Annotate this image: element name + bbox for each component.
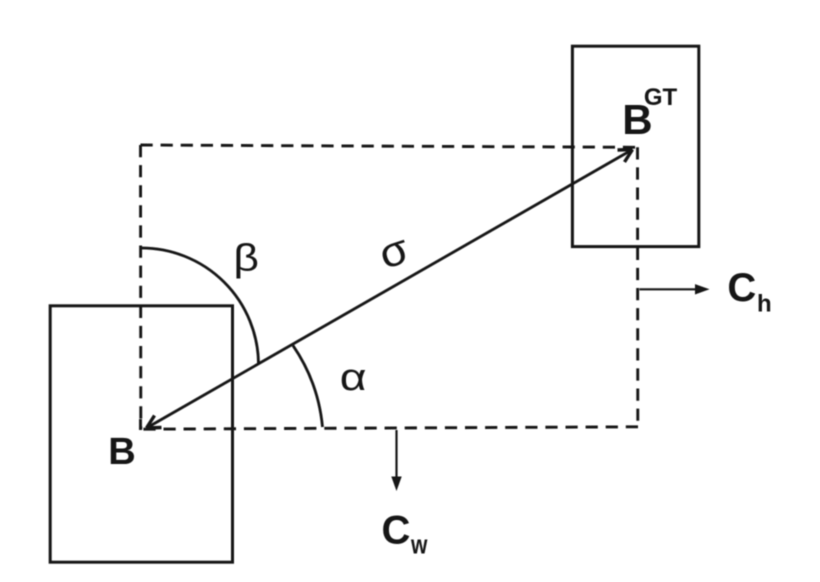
enclosing dashed box: bottom edge	[141, 427, 638, 429]
svg-text:h: h	[757, 291, 772, 318]
box B (predicted box, solid rectangle bottom-left)	[50, 306, 232, 562]
svg-text:B: B	[108, 431, 135, 473]
enclosing dashed box: left edge	[139, 145, 142, 429]
arrowhead upper-right of diagonal	[618, 150, 633, 163]
box BGT (ground-truth box, solid rectangle top-right)	[572, 46, 698, 246]
wire: left-edge dash stub at bottom-left corner	[139, 419, 142, 430]
svg-text:β: β	[233, 237, 259, 279]
beta angle arc	[142, 248, 259, 364]
enclosing dashed box: right edge	[636, 147, 639, 428]
svg-text:C: C	[727, 266, 756, 310]
svg-text:C: C	[382, 508, 411, 552]
svg-text:w: w	[410, 530, 427, 560]
sigma diagonal line	[147, 150, 633, 429]
svg-text:GT: GT	[644, 84, 678, 111]
alpha angle arc	[293, 346, 323, 427]
Cw arrow (downward from bottom dashed edge)	[395, 430, 397, 478]
svg-text:α: α	[340, 356, 367, 398]
arrowhead lower-left of diagonal	[147, 416, 162, 429]
Ch arrow (rightward from right dashed edge)	[640, 288, 697, 290]
enclosing dashed box: top edge	[141, 145, 638, 147]
